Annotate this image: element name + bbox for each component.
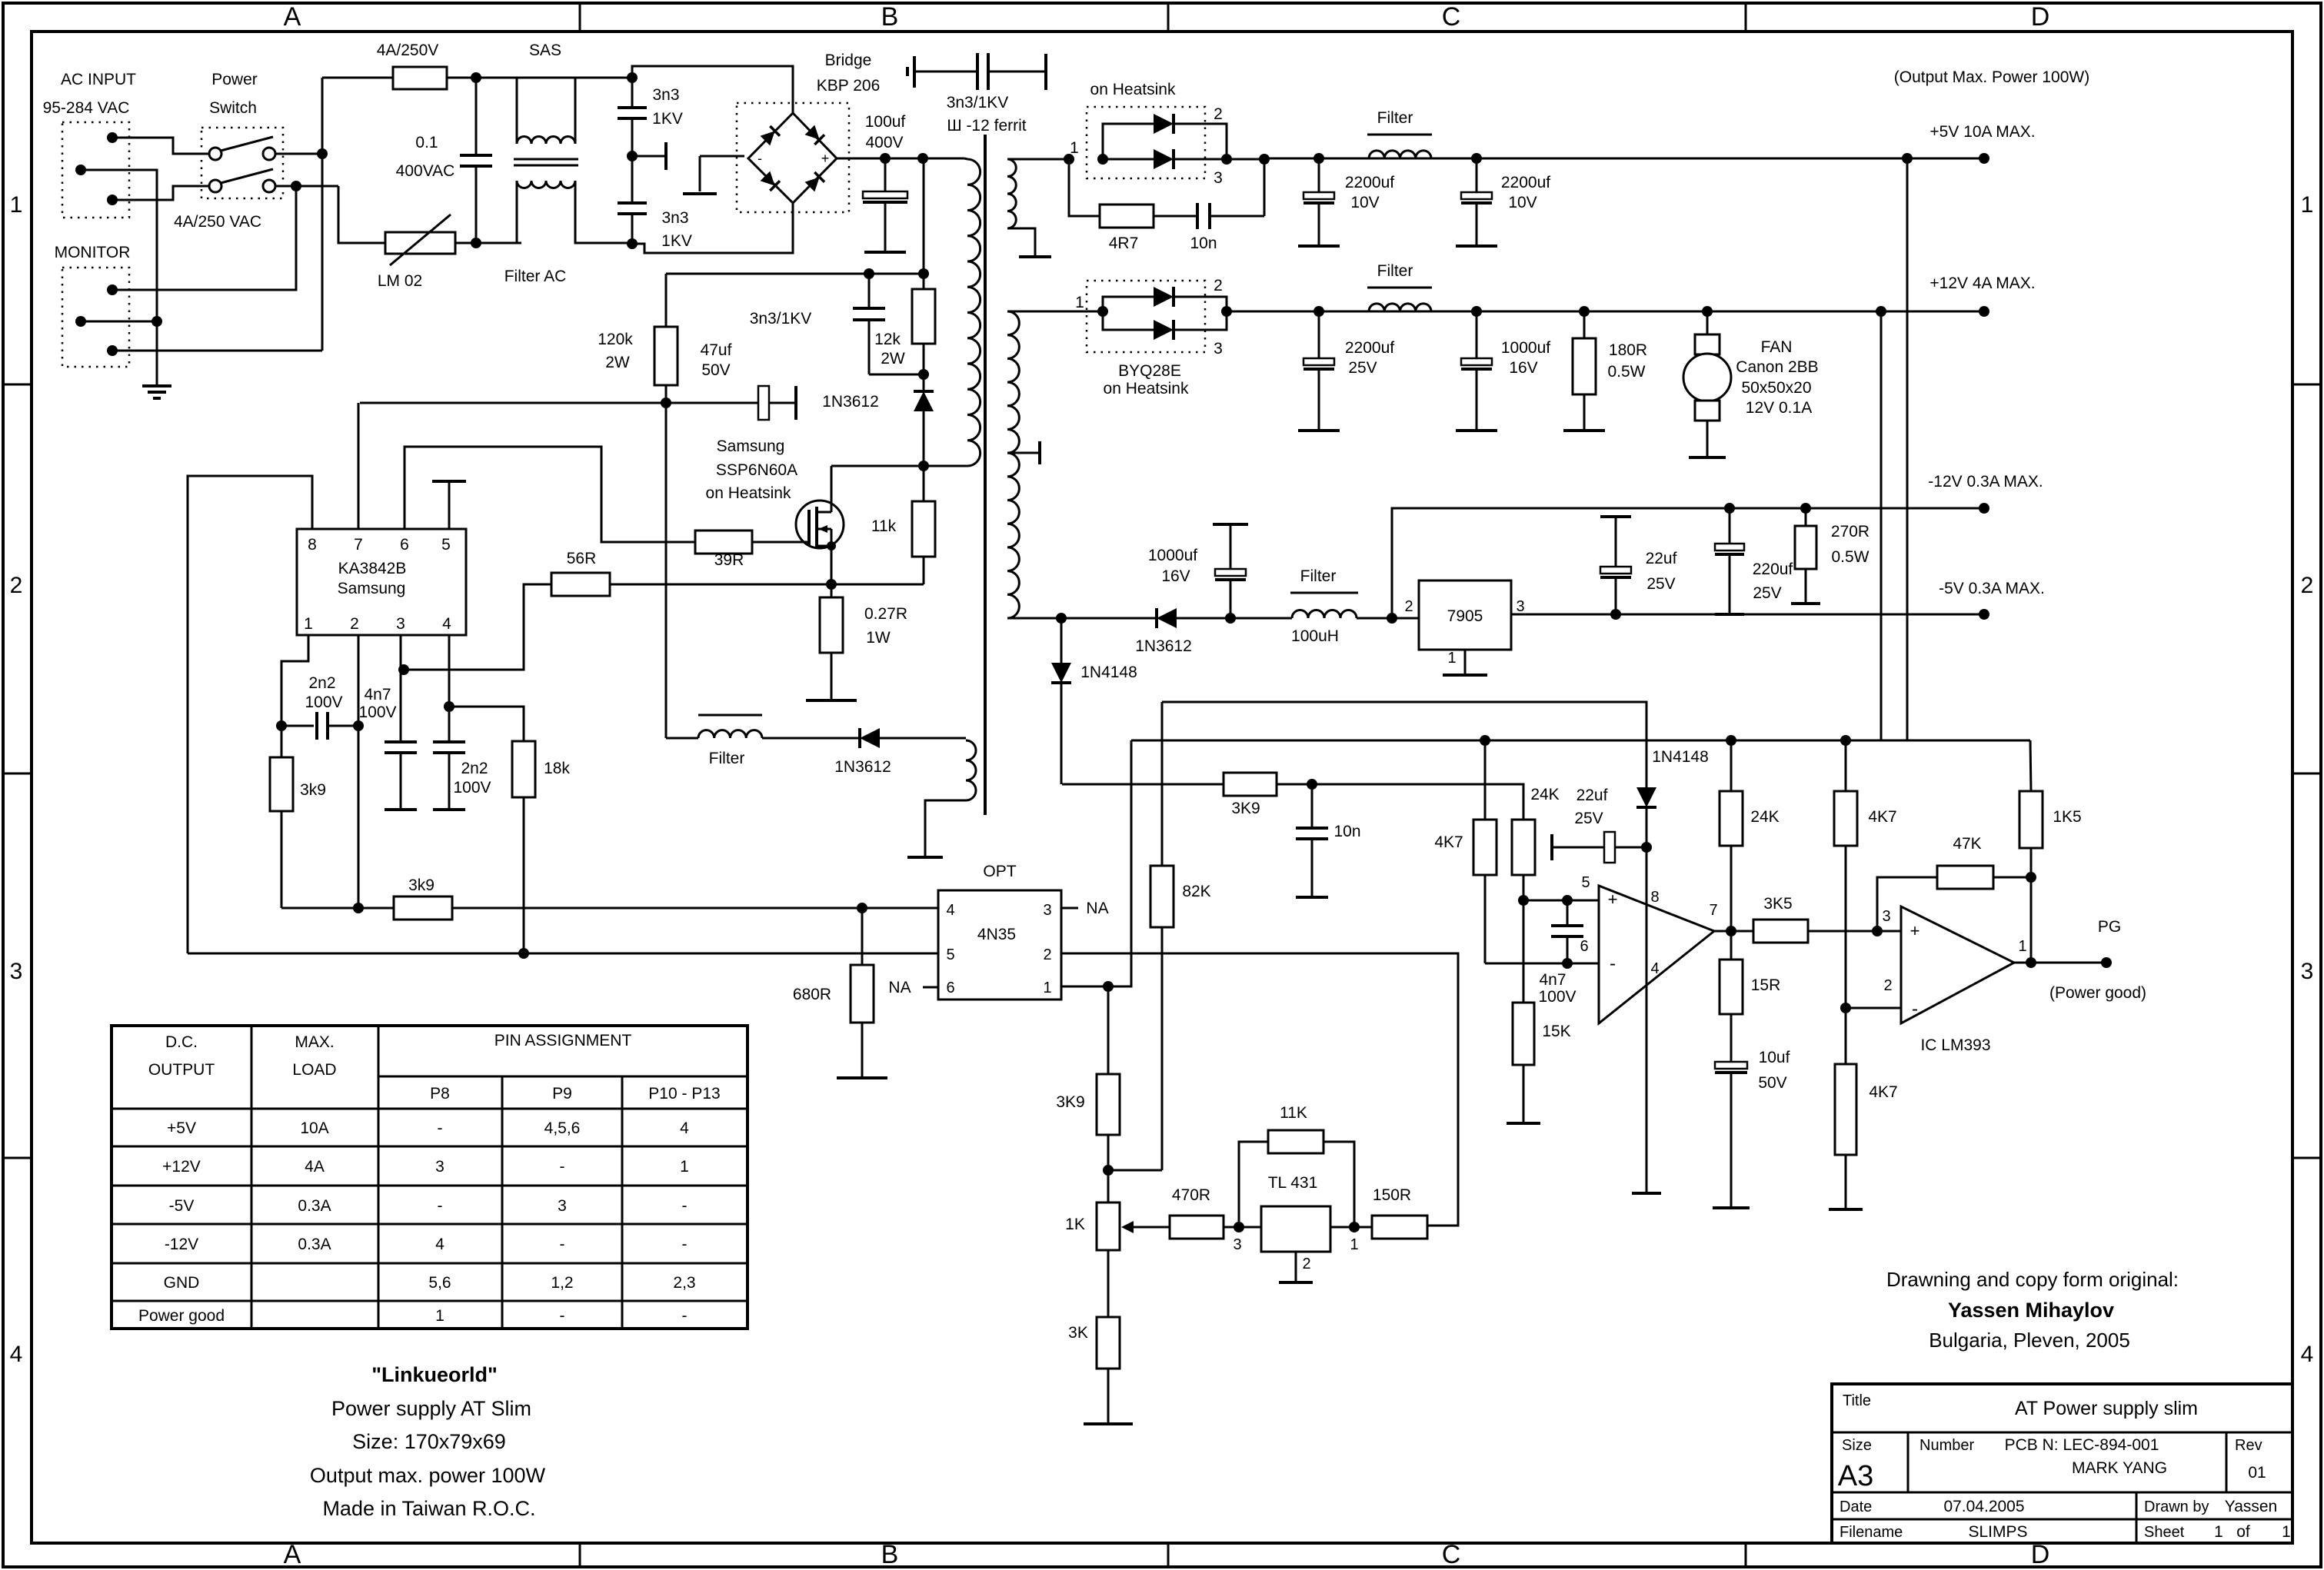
svg-text:2: 2 bbox=[10, 573, 23, 598]
svg-text:100V: 100V bbox=[1538, 988, 1576, 1006]
svg-text:+5V 10A MAX.: +5V 10A MAX. bbox=[1929, 123, 2035, 141]
svg-text:4n7: 4n7 bbox=[1539, 971, 1566, 989]
svg-text:BYQ28E: BYQ28E bbox=[1118, 362, 1181, 380]
wire 3K9-82K junction bbox=[1108, 1169, 1162, 1172]
svg-text:PCB N: LEC-894-001: PCB N: LEC-894-001 bbox=[2005, 1436, 2159, 1454]
node G mid Y-caps bbox=[627, 151, 638, 161]
svg-text:95-284 VAC: 95-284 VAC bbox=[43, 99, 130, 117]
svg-text:01: 01 bbox=[2248, 1464, 2266, 1482]
+12V drop vertical bbox=[1880, 311, 1883, 740]
svg-text:2n2: 2n2 bbox=[461, 760, 488, 777]
filter transformer SAS top winding bbox=[476, 78, 517, 144]
svg-text:2,3: 2,3 bbox=[673, 1274, 695, 1292]
svg-text:10uf: 10uf bbox=[1759, 1049, 1790, 1066]
wire sec2 bottom to -12 rectifier bbox=[1007, 617, 1061, 620]
+5V rail bbox=[1264, 158, 1984, 160]
svg-text:3n3/1KV: 3n3/1KV bbox=[947, 94, 1009, 111]
svg-text:50x50x20: 50x50x20 bbox=[1741, 379, 1811, 397]
svg-text:TL 431: TL 431 bbox=[1268, 1174, 1318, 1192]
svg-text:1: 1 bbox=[1447, 650, 1456, 667]
schottky pair dotted box +5V bbox=[1087, 107, 1205, 178]
svg-text:SLIMPS: SLIMPS bbox=[1968, 1523, 2027, 1541]
svg-text:11k: 11k bbox=[871, 517, 897, 535]
op-amp A2 output to PG bbox=[2014, 962, 2105, 964]
svg-text:3n3: 3n3 bbox=[652, 86, 679, 104]
svg-text:22uf: 22uf bbox=[1646, 550, 1677, 567]
aux wire to diode bbox=[762, 737, 860, 740]
svg-text:KA3842B: KA3842B bbox=[338, 560, 407, 577]
capacitor 3n3 1KV bottom Y-cap bbox=[631, 156, 634, 203]
svg-text:D: D bbox=[2031, 2, 2050, 32]
svg-text:15K: 15K bbox=[1542, 1023, 1570, 1040]
svg-text:6: 6 bbox=[1580, 938, 1588, 955]
wire KA3842 pin6 to 39R bbox=[405, 447, 695, 542]
svg-text:150R: 150R bbox=[1373, 1186, 1411, 1204]
svg-text:10V: 10V bbox=[1508, 194, 1537, 211]
svg-text:6: 6 bbox=[400, 536, 409, 554]
svg-text:10A: 10A bbox=[300, 1119, 328, 1137]
svg-text:2: 2 bbox=[1404, 598, 1413, 615]
svg-text:4R7: 4R7 bbox=[1109, 235, 1139, 252]
bridge diode top-left bbox=[761, 126, 780, 145]
filter transformer SAS bottom winding bbox=[476, 181, 517, 243]
pin 8 wire loop bbox=[188, 476, 312, 953]
svg-text:LM 02: LM 02 bbox=[378, 272, 422, 290]
svg-text:-12V: -12V bbox=[165, 1236, 198, 1253]
svg-text:-: - bbox=[682, 1307, 688, 1325]
svg-text:25V: 25V bbox=[1753, 584, 1781, 602]
svg-text:4K7: 4K7 bbox=[1869, 1083, 1897, 1101]
op-amp A1 LM393 first bbox=[1599, 886, 1714, 1023]
rail drop to opto pin1 bbox=[1108, 740, 1131, 986]
connector J2 MONITOR dotted box bbox=[62, 268, 129, 367]
TL431 pin1 node bbox=[1330, 1226, 1372, 1229]
filter coil +5V bbox=[1369, 151, 1431, 158]
wire node H to primary top bbox=[923, 158, 964, 160]
svg-text:P8: P8 bbox=[430, 1085, 450, 1103]
svg-text:2: 2 bbox=[2301, 573, 2314, 598]
svg-text:Power: Power bbox=[211, 71, 258, 88]
svg-text:-: - bbox=[560, 1307, 565, 1325]
svg-text:2200uf: 2200uf bbox=[1345, 339, 1394, 357]
svg-text:-: - bbox=[1610, 953, 1616, 974]
node F bottom right of SAS bbox=[627, 238, 638, 249]
svg-text:4n7: 4n7 bbox=[364, 686, 391, 704]
title block box bbox=[1832, 1384, 2292, 1543]
svg-text:(Output Max. Power 100W): (Output Max. Power 100W) bbox=[1894, 68, 2089, 86]
svg-text:Number: Number bbox=[1919, 1437, 1974, 1454]
wire J2 mid to neutral bbox=[81, 321, 157, 323]
svg-text:1: 1 bbox=[435, 1307, 444, 1325]
svg-text:3k9: 3k9 bbox=[300, 781, 326, 799]
svg-text:C: C bbox=[1442, 2, 1461, 32]
wire 120k to KA3842 pin7 Vcc bbox=[360, 402, 666, 404]
filter coil +12V bbox=[1369, 304, 1431, 311]
pin 4 wire bbox=[448, 635, 451, 707]
switch pole 2 bbox=[209, 180, 221, 192]
FAN motor bbox=[1702, 306, 1713, 317]
wire bridge plus to node H bbox=[837, 158, 923, 160]
svg-text:1N3612: 1N3612 bbox=[822, 393, 879, 411]
svg-text:3: 3 bbox=[1214, 340, 1223, 358]
svg-text:7: 7 bbox=[1709, 902, 1717, 919]
svg-text:Ш -12 ferrit: Ш -12 ferrit bbox=[947, 117, 1026, 135]
svg-text:Filter: Filter bbox=[1300, 567, 1337, 585]
filter coil 100uH bbox=[1230, 617, 1292, 620]
svg-text:MONITOR: MONITOR bbox=[55, 244, 131, 261]
svg-text:2: 2 bbox=[1214, 277, 1223, 294]
svg-text:-: - bbox=[1912, 999, 1918, 1020]
bridge diode bottom-left bbox=[761, 171, 780, 191]
svg-text:-: - bbox=[438, 1197, 443, 1215]
svg-text:Sheet: Sheet bbox=[2144, 1524, 2185, 1541]
svg-text:OUTPUT: OUTPUT bbox=[148, 1061, 215, 1079]
svg-text:4N35: 4N35 bbox=[977, 926, 1016, 943]
capacitor 22uf 25V comparator bbox=[1550, 846, 1553, 849]
svg-text:18k: 18k bbox=[544, 760, 570, 777]
svg-text:8: 8 bbox=[1650, 889, 1659, 906]
feedback 47K loop bbox=[1877, 877, 1937, 931]
svg-text:Date: Date bbox=[1840, 1498, 1872, 1515]
feedback 3K9 line bbox=[1062, 784, 1523, 820]
resistor 180R 0.5W bbox=[1579, 306, 1590, 317]
svg-text:MARK YANG: MARK YANG bbox=[2072, 1459, 2167, 1477]
wire node A vertical to fuse and monitor bbox=[321, 78, 324, 351]
secondary1 ground return bbox=[1007, 228, 1035, 256]
OPT pin1 wire bbox=[1061, 986, 1108, 988]
op-amp A1 minus input line bbox=[1485, 963, 1599, 965]
svg-text:4K7: 4K7 bbox=[1868, 808, 1896, 826]
svg-text:2W: 2W bbox=[605, 354, 630, 371]
svg-text:0.5W: 0.5W bbox=[1607, 363, 1645, 381]
capacitor 2200uf 10V second bbox=[1471, 153, 1482, 164]
svg-text:3K5: 3K5 bbox=[1763, 895, 1792, 913]
svg-text:LOAD: LOAD bbox=[292, 1061, 336, 1079]
wire secondary1 top to rectifier bbox=[1007, 158, 1069, 161]
82K feed line bbox=[1162, 702, 1646, 787]
svg-text:2n2: 2n2 bbox=[308, 674, 335, 692]
svg-text:1N4148: 1N4148 bbox=[1652, 748, 1709, 766]
op-amp A1 plus input line bbox=[1523, 900, 1599, 902]
wire J2 low to node A vertical bbox=[112, 350, 322, 352]
svg-text:Power good: Power good bbox=[138, 1307, 225, 1325]
svg-text:1: 1 bbox=[2214, 1523, 2223, 1541]
svg-text:+12V: +12V bbox=[162, 1158, 201, 1176]
svg-text:16V: 16V bbox=[1161, 567, 1190, 585]
diode D1 top parallel bbox=[1103, 124, 1154, 159]
wire 18k to opto line bbox=[523, 797, 525, 953]
svg-text:Samsung: Samsung bbox=[338, 580, 406, 597]
svg-text:10n: 10n bbox=[1190, 235, 1217, 252]
svg-text:120k: 120k bbox=[598, 331, 633, 348]
op-amp A1 output node bbox=[1714, 930, 1753, 933]
aux winding bottom return bbox=[925, 800, 966, 856]
svg-text:47uf: 47uf bbox=[701, 341, 732, 359]
svg-text:8: 8 bbox=[308, 536, 317, 554]
svg-text:on Heatsink: on Heatsink bbox=[706, 484, 791, 502]
svg-text:+12V 4A MAX.: +12V 4A MAX. bbox=[1929, 274, 2035, 292]
svg-text:1: 1 bbox=[1070, 139, 1079, 157]
svg-text:15R: 15R bbox=[1751, 976, 1781, 994]
svg-text:A: A bbox=[284, 1540, 301, 1569]
pin 1 wire to comp network bbox=[281, 635, 308, 726]
svg-text:Drawning and copy form origina: Drawning and copy form original: bbox=[1886, 1268, 2179, 1291]
svg-text:100V: 100V bbox=[453, 779, 491, 797]
source node bbox=[826, 579, 837, 590]
filter transformer core bars bbox=[514, 158, 578, 161]
J2 pin low bbox=[107, 345, 118, 356]
svg-text:3n3/1KV: 3n3/1KV bbox=[750, 310, 812, 328]
svg-text:0.5W: 0.5W bbox=[1831, 548, 1869, 566]
svg-text:KBP 206: KBP 206 bbox=[817, 77, 881, 95]
svg-text:0.27R: 0.27R bbox=[864, 605, 907, 623]
wire J1 top to switch bbox=[112, 138, 209, 154]
svg-text:2: 2 bbox=[350, 615, 359, 633]
svg-text:180R: 180R bbox=[1609, 341, 1647, 359]
wire 56R to KA3842 pin3 bbox=[404, 584, 551, 670]
svg-text:Filter: Filter bbox=[709, 750, 745, 767]
secondary2 center tap bbox=[1007, 452, 1038, 454]
wire varistor to node D bbox=[455, 242, 476, 244]
svg-text:(Power good): (Power good) bbox=[2049, 984, 2146, 1002]
svg-text:1: 1 bbox=[2301, 192, 2314, 218]
svg-text:AT Power supply slim: AT Power supply slim bbox=[2015, 1398, 2198, 1419]
J2 pin top bbox=[107, 284, 118, 295]
svg-text:4K7: 4K7 bbox=[1434, 833, 1463, 851]
svg-text:GND: GND bbox=[164, 1274, 200, 1292]
svg-text:6: 6 bbox=[946, 980, 954, 996]
earth ground AC bbox=[142, 384, 171, 388]
svg-text:4: 4 bbox=[442, 615, 451, 633]
svg-text:Filter: Filter bbox=[1377, 262, 1413, 280]
op-amp A2 minus input wire bbox=[1846, 1007, 1901, 1010]
svg-text:50V: 50V bbox=[1758, 1074, 1786, 1092]
svg-text:A3: A3 bbox=[1838, 1460, 1873, 1492]
svg-text:4: 4 bbox=[1650, 960, 1659, 977]
node E top right of SAS bbox=[627, 72, 638, 83]
svg-text:10V: 10V bbox=[1350, 194, 1379, 211]
svg-text:C: C bbox=[1442, 1540, 1461, 1569]
svg-text:P9: P9 bbox=[552, 1085, 572, 1103]
transformer T1 core bbox=[984, 135, 987, 815]
svg-text:4: 4 bbox=[10, 1342, 23, 1367]
svg-text:3: 3 bbox=[396, 615, 405, 633]
svg-text:-: - bbox=[560, 1158, 565, 1176]
svg-text:5: 5 bbox=[946, 946, 954, 963]
svg-text:Canon 2BB: Canon 2BB bbox=[1736, 358, 1818, 376]
pin assignment table bbox=[112, 1026, 747, 1329]
svg-text:2: 2 bbox=[1883, 977, 1892, 994]
svg-text:Filter AC: Filter AC bbox=[504, 268, 567, 285]
svg-text:+: + bbox=[1608, 890, 1618, 909]
diode D4 bottom bbox=[1103, 311, 1154, 330]
bridge diamond bbox=[748, 113, 837, 203]
wire J1 mid to neutral vertical bbox=[81, 170, 157, 384]
feedback line to OPT pin4 bbox=[281, 907, 938, 910]
svg-text:1KV: 1KV bbox=[652, 110, 683, 128]
diode D2 on line bbox=[1103, 158, 1154, 161]
svg-text:3: 3 bbox=[2301, 959, 2314, 984]
op-amp U3 4N35 opto box bbox=[938, 890, 1061, 1000]
svg-text:1N4148: 1N4148 bbox=[1080, 664, 1137, 681]
svg-text:100V: 100V bbox=[305, 694, 342, 711]
svg-text:AC INPUT: AC INPUT bbox=[61, 71, 136, 88]
svg-text:+: + bbox=[1910, 921, 1920, 940]
op-amp U5 7905 regulator box bbox=[1419, 580, 1511, 650]
J2 pin mid bbox=[75, 316, 86, 327]
capacitor 1000uf 16V bbox=[1471, 306, 1482, 317]
svg-text:D.C.: D.C. bbox=[165, 1033, 198, 1051]
svg-text:470R: 470R bbox=[1172, 1186, 1210, 1204]
wire 56R to source node bbox=[610, 584, 924, 586]
svg-text:7: 7 bbox=[354, 536, 363, 554]
pin 3 wire down bbox=[400, 635, 402, 670]
capacitor 2n2 on pin3 bbox=[400, 670, 402, 742]
svg-text:3n3: 3n3 bbox=[661, 209, 688, 227]
transformer T1 primary winding bbox=[967, 159, 981, 466]
svg-text:4: 4 bbox=[435, 1236, 444, 1253]
svg-text:Bulgaria, Pleven, 2005: Bulgaria, Pleven, 2005 bbox=[1929, 1329, 2130, 1352]
svg-text:100V: 100V bbox=[358, 704, 396, 721]
varistor LM 02 bbox=[385, 232, 455, 254]
svg-text:4: 4 bbox=[680, 1119, 689, 1137]
wire J1 low to switch pole 2 bbox=[112, 186, 209, 200]
svg-text:1: 1 bbox=[1043, 980, 1051, 996]
schottky pair dotted box +12V BYQ28E bbox=[1087, 281, 1205, 352]
svg-text:3: 3 bbox=[435, 1158, 444, 1176]
svg-text:25V: 25V bbox=[1574, 810, 1603, 827]
svg-text:1N3612: 1N3612 bbox=[1135, 637, 1192, 655]
svg-text:4A/250V: 4A/250V bbox=[377, 42, 439, 59]
svg-text:1N3612: 1N3612 bbox=[834, 758, 891, 776]
wire node F to bridge minus bottom bbox=[632, 203, 793, 253]
feedback line to OPT pin5 bbox=[188, 953, 938, 955]
svg-text:Switch: Switch bbox=[209, 99, 257, 117]
svg-text:B: B bbox=[881, 2, 899, 32]
frame column ticks top bbox=[579, 3, 581, 32]
svg-text:Output max. power 100W: Output max. power 100W bbox=[310, 1464, 546, 1487]
svg-text:2200uf: 2200uf bbox=[1501, 174, 1550, 191]
svg-text:1: 1 bbox=[10, 192, 23, 218]
svg-text:07.04.2005: 07.04.2005 bbox=[1943, 1498, 2024, 1515]
svg-text:Filter: Filter bbox=[1377, 109, 1413, 127]
wire sec2 top to rectifier bbox=[1007, 311, 1103, 313]
svg-text:47K: 47K bbox=[1953, 835, 1981, 853]
svg-text:0.3A: 0.3A bbox=[298, 1236, 331, 1253]
transformer T1 secondary winding +5V bbox=[1007, 159, 1016, 228]
pin6 NA stub bbox=[923, 986, 938, 989]
svg-text:P10 - P13: P10 - P13 bbox=[648, 1085, 720, 1103]
bridge dotted box bbox=[737, 103, 849, 212]
svg-text:16V: 16V bbox=[1509, 359, 1537, 377]
svg-text:2: 2 bbox=[1214, 105, 1223, 123]
-12V rail takeoff bbox=[1392, 508, 1984, 618]
svg-text:on Heatsink: on Heatsink bbox=[1104, 380, 1189, 397]
svg-text:on Heatsink: on Heatsink bbox=[1090, 81, 1176, 98]
svg-text:400V: 400V bbox=[865, 134, 903, 151]
svg-text:82K: 82K bbox=[1182, 883, 1210, 900]
svg-text:2W: 2W bbox=[881, 350, 905, 368]
svg-text:2: 2 bbox=[1043, 946, 1051, 963]
wire switch1 out to node A bbox=[275, 153, 322, 155]
svg-text:1: 1 bbox=[680, 1158, 689, 1176]
svg-text:24K: 24K bbox=[1750, 808, 1779, 826]
svg-text:4A/250 VAC: 4A/250 VAC bbox=[174, 213, 261, 231]
svg-text:22uf: 22uf bbox=[1577, 787, 1608, 804]
svg-text:Size: Size bbox=[1842, 1437, 1872, 1454]
svg-text:1: 1 bbox=[1350, 1236, 1358, 1253]
svg-text:50V: 50V bbox=[701, 361, 730, 379]
svg-text:1K5: 1K5 bbox=[2053, 808, 2081, 826]
svg-text:3K9: 3K9 bbox=[1056, 1093, 1084, 1111]
svg-text:12k: 12k bbox=[874, 331, 901, 348]
svg-text:-: - bbox=[438, 1119, 443, 1137]
svg-text:680R: 680R bbox=[793, 986, 831, 1003]
frame row ticks right bbox=[2292, 384, 2321, 386]
svg-text:+: + bbox=[821, 151, 830, 166]
svg-text:1000uf: 1000uf bbox=[1148, 547, 1197, 564]
svg-text:B: B bbox=[881, 1540, 899, 1569]
svg-text:1: 1 bbox=[2018, 938, 2026, 955]
OPT pin2 wire to TL431 loop bbox=[1061, 953, 1458, 1226]
svg-text:1: 1 bbox=[2282, 1523, 2291, 1541]
+5V drop vertical bbox=[1906, 158, 1909, 740]
pin 7 Vcc wire bbox=[358, 403, 360, 529]
svg-text:2200uf: 2200uf bbox=[1345, 174, 1394, 191]
pin 2 wire down bbox=[358, 635, 360, 908]
op-amp U2 KA3842B box bbox=[297, 529, 466, 635]
svg-text:PIN ASSIGNMENT: PIN ASSIGNMENT bbox=[494, 1032, 632, 1049]
snubber 4R7 10n bbox=[1069, 159, 1100, 216]
svg-text:24K: 24K bbox=[1530, 786, 1559, 803]
capacitor 3n3 1KV top Y-cap bbox=[631, 78, 634, 108]
svg-text:5,6: 5,6 bbox=[428, 1274, 451, 1292]
switch pole 1 bbox=[209, 148, 221, 160]
TL431 pin2 ground bbox=[1295, 1252, 1297, 1281]
svg-text:400VAC: 400VAC bbox=[396, 162, 455, 180]
wire node C down to varistor bbox=[338, 186, 385, 243]
svg-text:SSP6N60A: SSP6N60A bbox=[716, 461, 797, 479]
wire pin4 to 18k bbox=[449, 707, 524, 741]
bridge diode bottom-right bbox=[805, 172, 824, 191]
svg-text:3K9: 3K9 bbox=[1231, 800, 1260, 817]
svg-text:2: 2 bbox=[1302, 1256, 1310, 1272]
svg-text:"Linkueorld": "Linkueorld" bbox=[371, 1363, 498, 1386]
svg-text:-12V 0.3A MAX.: -12V 0.3A MAX. bbox=[1928, 473, 2043, 491]
svg-text:25V: 25V bbox=[1348, 359, 1377, 377]
wire fuse to node B bbox=[447, 77, 476, 79]
svg-text:270R: 270R bbox=[1831, 523, 1870, 541]
svg-text:3K: 3K bbox=[1068, 1324, 1088, 1342]
svg-text:3k9: 3k9 bbox=[408, 876, 435, 894]
svg-text:4: 4 bbox=[2301, 1342, 2314, 1367]
+12V rail bbox=[1227, 311, 1984, 313]
svg-text:3: 3 bbox=[1882, 908, 1890, 925]
diode D3 top bbox=[1103, 297, 1154, 311]
svg-text:NA: NA bbox=[888, 979, 911, 996]
svg-text:100uH: 100uH bbox=[1291, 627, 1339, 645]
J1 pin mid bbox=[75, 165, 86, 175]
svg-text:PG: PG bbox=[2098, 918, 2121, 936]
svg-text:4A: 4A bbox=[305, 1158, 325, 1176]
wire sec1 to diode node bbox=[1064, 154, 1074, 165]
svg-text:Yassen Mihaylov: Yassen Mihaylov bbox=[1948, 1299, 2114, 1322]
pin3 NA stub bbox=[1061, 907, 1078, 910]
wire node C down to monitor top pin bbox=[112, 186, 296, 290]
svg-text:100uf: 100uf bbox=[865, 113, 906, 131]
svg-text:3: 3 bbox=[10, 959, 23, 984]
wire bridge top to node E bbox=[632, 66, 793, 113]
